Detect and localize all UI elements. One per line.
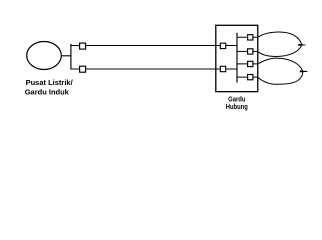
wire: junction vertical riser [70,44,72,70]
wire: distribution loop 2 upper arc [258,58,303,71]
wire: feeder branch 1 [237,36,258,38]
label: Gardu Hubung [226,96,248,112]
wire: distribution loop 2 lower arc [258,71,303,84]
substation box: Gardu Hubung [216,25,258,91]
wire: bottom transmission line to Gardu Hubung [70,68,237,70]
breaker S8 (feeder 4) [248,75,253,80]
wire: generator to junction [61,55,71,57]
wire: distribution loop 1 lower arc [258,45,302,57]
svg-text:Gardu: Gardu [228,96,245,104]
wire: feeder branch 3 [237,63,258,65]
svg-text:Hubung: Hubung [226,104,248,112]
wire: top transmission line to Gardu Hubung [70,45,237,47]
arrowhead loop 1 [298,44,305,46]
generator G1 (Pusat Listrik / Gardu Induk source circle) [27,42,62,70]
svg-text:Pusat Listrik/: Pusat Listrik/ [26,78,74,87]
busbar of Gardu Hubung [236,33,238,83]
svg-text:Gardu Induk: Gardu Induk [25,87,70,96]
breaker S6 (feeder 2) [248,49,253,54]
wire: distribution loop 1 upper arc [258,32,302,45]
breaker S7 (feeder 3) [248,61,253,66]
arrowhead loop 2 [300,70,308,72]
breaker S2 (bottom line, sending end) [80,66,86,72]
breaker S4 (bottom line, receiving end inside box) [220,66,225,71]
wire: feeder branch 2 [237,50,258,52]
breaker S3 (top line, receiving end inside box) [220,43,225,48]
wire: feeder branch 4 [237,76,258,78]
breaker S5 (feeder 1) [248,35,253,40]
breaker S1 (top line, sending end) [80,43,86,49]
